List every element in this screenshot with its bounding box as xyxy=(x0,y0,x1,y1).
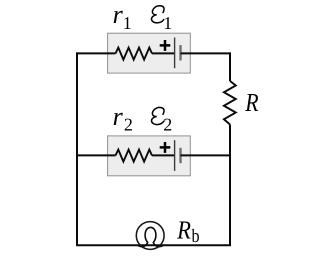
plus sign of E1 xyxy=(160,40,171,51)
bulb circle xyxy=(136,222,164,250)
wire: top branch middle segment xyxy=(152,52,175,54)
wire: right vertical upper xyxy=(229,52,231,81)
label script E2 xyxy=(151,107,164,124)
wire: top branch left segment xyxy=(76,52,116,54)
wire: middle branch middle segment xyxy=(152,154,175,156)
resistor r2 zigzag xyxy=(116,150,153,162)
battery E1 short plate xyxy=(179,45,181,60)
wire: top branch right segment xyxy=(181,52,232,54)
svg-text:2: 2 xyxy=(163,115,172,135)
svg-text:R: R xyxy=(176,215,191,244)
resistor r1 zigzag xyxy=(116,48,153,60)
plus sign of E2 xyxy=(160,142,171,153)
wire: right vertical lower xyxy=(229,125,231,247)
battery E1 long plate xyxy=(174,38,176,69)
resistor R zigzag xyxy=(224,81,236,125)
battery box 2 (shaded) xyxy=(108,136,191,176)
svg-text:1: 1 xyxy=(163,13,172,33)
battery E2 long plate xyxy=(174,140,176,171)
svg-text:b: b xyxy=(192,226,200,247)
svg-text:R: R xyxy=(244,88,258,117)
wire: middle branch right segment xyxy=(181,154,231,156)
wire: bottom xyxy=(76,244,231,246)
battery box 1 (shaded) xyxy=(108,33,191,73)
label script E1 xyxy=(151,6,164,23)
svg-text:2: 2 xyxy=(124,115,133,135)
battery E2 short plate xyxy=(179,148,181,163)
svg-text:1: 1 xyxy=(123,13,132,33)
wire: left vertical xyxy=(76,52,78,245)
svg-text:r: r xyxy=(113,102,124,131)
wire: middle branch left segment xyxy=(76,154,116,156)
bulb filament loop xyxy=(138,227,164,246)
